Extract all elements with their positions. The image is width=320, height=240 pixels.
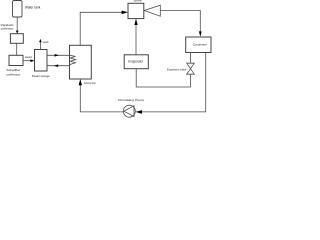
- svg-text:Scheffler: Scheffler: [6, 68, 20, 72]
- svg-text:Economizer: Economizer: [84, 81, 96, 85]
- circulating pump circle: [123, 105, 135, 117]
- wire evaporator top to superheater: [80, 12, 122, 45]
- wire condenser to expansion valve: [190, 53, 192, 64]
- arrowhead down into condenser: [199, 31, 202, 36]
- arrowhead up into evaporator bottom: [79, 79, 82, 85]
- arrowhead right on top steam line: [55, 54, 59, 57]
- arrowhead into superheater left: [122, 11, 128, 15]
- expansion valve symbol: [187, 63, 195, 74]
- svg-text:Expansion valve: Expansion valve: [167, 67, 186, 71]
- arrowhead up into superheater bottom: [134, 19, 137, 25]
- coil inside evaporator: [70, 55, 76, 65]
- wire condenser right down to pump line: [142, 53, 206, 112]
- wire evaporator (ORC) to superheater: [135, 25, 137, 55]
- scheffler collector box: [9, 55, 23, 65]
- wire scheffler to steam storage: [23, 60, 31, 62]
- svg-text:Evaporator: Evaporator: [128, 60, 144, 64]
- arrowhead left on bottom steam line: [54, 64, 58, 67]
- wire valve to evaporator (ORC) box: [136, 69, 190, 87]
- wire parabolic to scheffler: [16, 43, 18, 55]
- water tank: [13, 1, 23, 18]
- svg-text:collector: collector: [1, 27, 14, 31]
- svg-text:Steam storage: Steam storage: [32, 74, 50, 78]
- arrowhead into steam storage: [30, 59, 34, 62]
- svg-text:Circulating Pump: Circulating Pump: [118, 98, 144, 102]
- parabolic collector box: [10, 34, 23, 44]
- wire pump left to economizer riser: [80, 85, 123, 112]
- svg-text:steam: steam: [25, 56, 32, 59]
- arrowhead into pump right: [135, 110, 142, 114]
- pump triangle: [124, 106, 134, 117]
- wire storage to evaporator (top): [47, 54, 70, 56]
- svg-text:Condenser: Condenser: [193, 43, 207, 47]
- steam storage box: [35, 50, 48, 72]
- wire evaporator to storage (bottom): [47, 65, 70, 67]
- steam vent wire up from storage: [39, 42, 41, 50]
- svg-text:collector: collector: [6, 72, 20, 76]
- svg-text:Super heater: Super heater: [134, 0, 142, 3]
- wire turbine to condenser: [160, 11, 200, 32]
- arrowhead steam vent up: [39, 39, 42, 42]
- condenser box: [186, 37, 211, 53]
- svg-text:steam: steam: [43, 41, 49, 44]
- svg-text:Water tank: Water tank: [25, 6, 41, 10]
- evaporator (ORC) box: [124, 55, 148, 69]
- wire tank to parabolic collector: [16, 17, 18, 32]
- super heater box: [128, 3, 144, 18]
- turbine triangle: [144, 5, 160, 16]
- arrowhead into parabolic collector: [16, 31, 19, 34]
- evaporator (tall heat exchanger) box: [70, 45, 92, 79]
